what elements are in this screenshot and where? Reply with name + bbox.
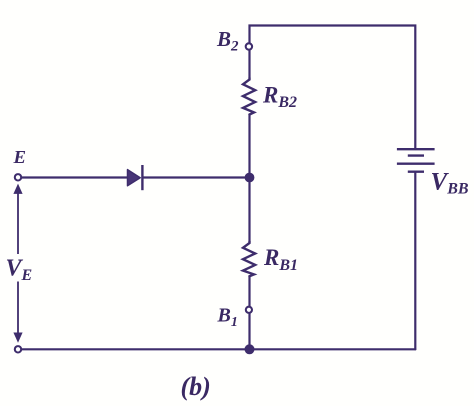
- terminal B1 (open circle): [246, 307, 252, 313]
- svg-text:E: E: [12, 147, 26, 167]
- terminal bottom-left (open circle): [15, 346, 21, 352]
- svg-text:VBB: VBB: [431, 168, 469, 197]
- svg-text:B2: B2: [216, 27, 239, 55]
- svg-text:VE: VE: [6, 256, 33, 284]
- junction node (B1 to bottom rail): [245, 344, 255, 354]
- svg-text:RB1: RB1: [263, 245, 298, 274]
- battery VBB plates: [397, 149, 435, 172]
- wire E to diode anode: [22, 176, 128, 178]
- svg-text:RB2: RB2: [262, 82, 297, 111]
- wire diode cathode to junction: [142, 176, 249, 178]
- svg-text:(b): (b): [181, 372, 211, 401]
- wire RB1 to B1: [248, 276, 250, 306]
- resistor RB1: [243, 242, 255, 277]
- resistor RB2: [243, 78, 255, 115]
- wire B1 to bottom junction: [248, 313, 250, 349]
- wire bottom rail: [18, 348, 415, 350]
- wire top (B2 node to battery top): [250, 26, 416, 150]
- diode D (triangle + cathode bar): [128, 165, 143, 190]
- wire B2 to RB2: [248, 51, 250, 78]
- svg-text:B1: B1: [217, 305, 238, 331]
- junction node (diode/RB2/RB1): [245, 173, 255, 183]
- terminal B2 (open circle): [246, 43, 252, 49]
- wire junction to RB1: [248, 178, 250, 243]
- wire right lower (battery to bottom rail): [414, 172, 416, 350]
- wire RB2 to junction node: [248, 115, 250, 178]
- terminal E (open circle): [15, 174, 21, 180]
- voltage arrow VE (double-headed): [13, 184, 22, 343]
